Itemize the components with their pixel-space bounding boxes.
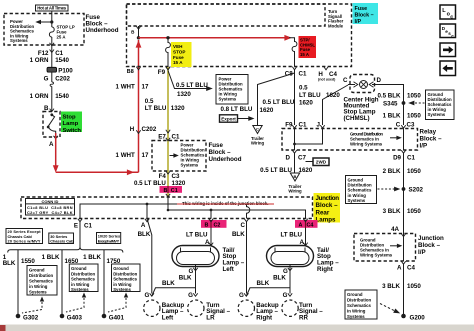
fuse block underhood (middle) dashed box xyxy=(152,141,206,172)
wire (red highlighted) feed to STP CHMSL fuse xyxy=(139,35,292,41)
wire BLK from tail lamp right ground xyxy=(273,271,290,294)
UI button back (left arrow) xyxy=(440,61,456,76)
svg-text:Export: Export xyxy=(221,116,236,121)
node junction on ORN wire xyxy=(50,20,53,23)
svg-text:Block –: Block – xyxy=(355,13,374,19)
svg-text:c: c xyxy=(450,15,453,21)
svg-text:Systems: Systems xyxy=(428,112,446,117)
reference box Power Distribution Schematics (solid) xyxy=(216,75,248,105)
pin A of junction block xyxy=(141,219,149,229)
wire (red highlighted) switch A down xyxy=(53,133,59,173)
svg-text:(CHMSL): (CHMSL) xyxy=(344,115,370,122)
svg-text:Ground: Ground xyxy=(71,266,87,271)
pin G of tail lamp right xyxy=(283,268,292,275)
svg-text:G: G xyxy=(144,292,149,299)
svg-text:1 ORN: 1 ORN xyxy=(30,93,49,100)
pin G of turn signal RR xyxy=(283,292,293,299)
wire junction block internal feed bus xyxy=(167,197,306,219)
arrow to power distribution reference xyxy=(35,20,52,24)
label Stop Lamp Switch (green highlight) xyxy=(61,112,82,134)
svg-text:0.5 LT BLU: 0.5 LT BLU xyxy=(176,82,208,89)
svg-text:BLK: BLK xyxy=(273,274,286,281)
svg-text:G403: G403 xyxy=(67,314,83,321)
label Turn Signal Flasher Module xyxy=(328,9,344,28)
svg-text:1540: 1540 xyxy=(55,93,69,100)
svg-text:1050: 1050 xyxy=(407,112,421,119)
annotation 0.8 LT BLU Export xyxy=(220,106,255,122)
svg-text:BLK: BLK xyxy=(257,280,270,287)
pin H C4 not used xyxy=(318,67,337,82)
svg-text:in Wiring: in Wiring xyxy=(29,284,48,289)
svg-text:17: 17 xyxy=(142,152,149,159)
wire CHMSL D to ground bus xyxy=(377,85,404,126)
svg-text:Distribution: Distribution xyxy=(71,271,95,276)
svg-text:3 BLK: 3 BLK xyxy=(382,283,400,290)
UI button next (right arrow) xyxy=(440,43,456,57)
svg-text:G: G xyxy=(283,292,288,299)
svg-text:C1: C1 xyxy=(172,134,180,141)
label STP CHMSL Fuse 15 A (red highlight) xyxy=(299,36,317,58)
svg-text:20 Series w/MVY: 20 Series w/MVY xyxy=(8,239,41,244)
wire CHMSL C to relay block pin J xyxy=(323,85,349,125)
svg-text:1 BLK: 1 BLK xyxy=(42,254,60,261)
svg-text:Switch: Switch xyxy=(63,128,82,134)
lamp Tail Stop Lamp Left xyxy=(172,246,219,272)
svg-text:D: D xyxy=(377,77,382,84)
wire 1 ORN 1540 xyxy=(30,48,70,67)
svg-text:15 A: 15 A xyxy=(300,52,309,57)
relay block IP dashed box xyxy=(282,129,418,151)
lamp CHMSL symbol xyxy=(348,81,377,89)
reference pointer 0.5 LT BLU 1320 to power distribution xyxy=(168,71,213,98)
svg-text:LT BLU: LT BLU xyxy=(186,231,208,238)
label STOP LP Fuse 25 A xyxy=(57,25,75,40)
svg-text:Right: Right xyxy=(317,266,333,273)
svg-text:4A: 4A xyxy=(391,226,399,233)
junction block rear lamps dashed box xyxy=(21,197,313,219)
svg-text:Wiring Systems: Wiring Systems xyxy=(350,141,383,146)
stop lamp switch SW1 dashed box xyxy=(43,112,60,138)
svg-text:Systems: Systems xyxy=(347,314,365,319)
label 0.5 LT BLU 1320 on olive wire xyxy=(145,98,185,112)
pin E C1 of junction block xyxy=(74,219,93,230)
svg-text:I/P: I/P xyxy=(355,19,362,25)
svg-text:A: A xyxy=(141,222,146,229)
svg-text:Junction: Junction xyxy=(418,235,444,242)
reference box Ground Distribution (G401) xyxy=(108,264,140,312)
svg-text:Systems: Systems xyxy=(348,198,366,203)
svg-text:Relay: Relay xyxy=(420,129,437,136)
svg-text:Underhood: Underhood xyxy=(209,156,242,163)
svg-text:C3: C3 xyxy=(172,173,180,180)
splice S202 xyxy=(378,187,424,194)
ground G403 xyxy=(60,314,83,322)
svg-text:F4: F4 xyxy=(159,173,167,180)
label Tail Stop Lamp Right xyxy=(317,247,339,273)
wire BLK from tail lamp left ground xyxy=(179,271,196,294)
svg-text:Wiring: Wiring xyxy=(288,189,302,194)
svg-text:Schematics: Schematics xyxy=(71,277,95,282)
label Relay Block - IP xyxy=(420,129,443,150)
svg-text:BLK: BLK xyxy=(138,231,151,238)
label 0.5 LT BLU 1620 vertical xyxy=(299,84,321,106)
svg-text:Module: Module xyxy=(328,23,344,28)
pin C8 C1 of fuse block IP xyxy=(285,67,307,78)
svg-text:A: A xyxy=(300,239,305,246)
svg-text:Block –: Block – xyxy=(418,242,441,249)
svg-text:25 A: 25 A xyxy=(57,34,66,39)
wire relay internal F9 to D xyxy=(294,129,296,151)
reference box Ground Distribution (G200) xyxy=(345,290,400,319)
label VEH STOP Fuse 15 A (yellow highlight) xyxy=(171,42,192,67)
svg-text:0.5 BLK: 0.5 BLK xyxy=(377,92,401,99)
svg-text:c: c xyxy=(451,34,454,39)
brace splitting ground wire xyxy=(8,247,123,253)
reference Power Distribution Schematics (underhood fuse block) xyxy=(10,19,34,43)
svg-text:1 BLK: 1 BLK xyxy=(83,254,101,261)
svg-text:Systems: Systems xyxy=(29,290,47,295)
svg-text:15 A: 15 A xyxy=(173,60,183,65)
svg-text:G401: G401 xyxy=(109,314,125,321)
svg-text:1620: 1620 xyxy=(260,107,274,114)
node Hot at All Times xyxy=(36,5,69,11)
svg-text:C3: C3 xyxy=(407,121,415,128)
svg-text:Junction: Junction xyxy=(316,195,340,202)
svg-text:2 BLK: 2 BLK xyxy=(383,168,401,175)
wire relay internal J joins F9 xyxy=(293,129,322,146)
svg-text:Rear: Rear xyxy=(316,209,330,216)
UI bottom status bar xyxy=(0,325,474,331)
junction block IP dashed box xyxy=(354,234,416,262)
svg-text:0.5: 0.5 xyxy=(299,84,308,91)
svg-text:2WD: 2WD xyxy=(316,160,327,165)
pin G of backup lamp right xyxy=(239,292,249,299)
pin G of tail lamp left xyxy=(188,268,197,275)
svg-text:This wiring is inside of the j: This wiring is inside of the junction bl… xyxy=(182,201,269,206)
lamp Turn Signal RR (dashed circle) xyxy=(282,300,323,322)
wire through junction block IP xyxy=(403,234,405,262)
wire relay internal C3 to D9 xyxy=(403,129,405,151)
pin E7 C1 of fuse block underhood xyxy=(158,134,180,141)
svg-text:E: E xyxy=(74,222,78,229)
svg-text:Systems: Systems xyxy=(71,287,89,292)
svg-text:Ground: Ground xyxy=(347,292,363,297)
svg-text:1320: 1320 xyxy=(177,91,191,98)
variant box 20 Series Except Chassis Cab xyxy=(6,229,43,244)
svg-text:B: B xyxy=(205,223,209,229)
svg-text:1050: 1050 xyxy=(407,208,421,215)
pin F9 C1 of relay block xyxy=(285,121,307,128)
wire A C4 to G200 xyxy=(403,264,405,315)
svg-text:Systems: Systems xyxy=(10,38,28,43)
fuse VEH STOP 15A symbol xyxy=(166,38,171,67)
svg-text:Distribution: Distribution xyxy=(113,271,137,276)
wire 1 BLK 1650 to G403 xyxy=(42,250,79,314)
svg-text:in Wiring: in Wiring xyxy=(71,282,90,287)
svg-text:C1: C1 xyxy=(55,50,63,57)
svg-text:G: G xyxy=(188,292,193,299)
node junction at VEH STOP fuse xyxy=(166,36,169,39)
svg-text:1050: 1050 xyxy=(407,168,421,175)
svg-text:1050: 1050 xyxy=(407,283,421,290)
svg-text:F12: F12 xyxy=(38,50,49,57)
svg-text:H: H xyxy=(130,126,135,133)
svg-text:A: A xyxy=(49,141,54,148)
reference box Ground Distribution (G403) xyxy=(66,264,98,312)
svg-text:Right: Right xyxy=(256,315,272,322)
svg-text:C1: C1 xyxy=(299,70,307,77)
svg-text:3 BLK: 3 BLK xyxy=(383,208,401,215)
label 1 WHT 17 upper xyxy=(116,83,149,90)
splice S345 xyxy=(383,101,424,108)
svg-text:A: A xyxy=(397,264,402,271)
reference box Ground Distribution (G302) xyxy=(22,266,57,314)
reference box Ground Distribution (S202) xyxy=(346,176,377,204)
svg-text:A: A xyxy=(299,223,303,229)
svg-text:1320: 1320 xyxy=(171,105,185,112)
svg-text:D: D xyxy=(286,155,291,162)
fuse STP CHMSL 15A symbol xyxy=(289,38,297,67)
svg-text:C7: C7 xyxy=(298,155,306,162)
svg-text:in Wiring: in Wiring xyxy=(113,282,132,287)
svg-text:1 WHT: 1 WHT xyxy=(116,83,135,90)
wire trailer branch from C8 C1 xyxy=(258,73,295,126)
wire LT BLU to left tail lamp xyxy=(186,228,213,246)
svg-text:C4: C4 xyxy=(407,264,415,271)
wire flasher B to stop feed junction xyxy=(138,26,140,38)
svg-text:Fuse: Fuse xyxy=(209,142,224,149)
wire E C1 down to brace xyxy=(79,222,81,248)
wire A BLK from junction block to backup lamp left xyxy=(138,219,152,294)
label 0.5 LT BLU 1320 xyxy=(134,180,186,187)
pin B of stop lamp switch xyxy=(44,105,49,112)
wire 1 ORN 1540 lower xyxy=(30,86,70,111)
svg-text:Chassis Cab: Chassis Cab xyxy=(50,239,74,244)
wire (olive highlighted) circuit 1320 from F9 down to junction block xyxy=(166,67,170,197)
trailer wiring triangle C xyxy=(251,126,265,146)
svg-text:Block –: Block – xyxy=(209,149,232,156)
wire D9 to junction block IP xyxy=(403,153,405,234)
svg-text:F9: F9 xyxy=(158,69,166,76)
svg-text:1620: 1620 xyxy=(326,92,340,99)
svg-text:G: G xyxy=(44,76,49,83)
label 0.5 BLK 1050 xyxy=(377,92,421,99)
svg-text:LT BLU: LT BLU xyxy=(145,105,167,112)
fuse block underhood (left) dashed box xyxy=(4,14,84,46)
svg-text:Systems: Systems xyxy=(113,287,131,292)
label 1620 xyxy=(326,92,340,99)
ground G401 xyxy=(102,314,125,322)
lamp Backup Lamp Left (dashed circle) xyxy=(144,300,185,322)
wire fuse to F12 pin xyxy=(51,37,53,48)
svg-text:1320: 1320 xyxy=(172,180,186,187)
svg-text:C: C xyxy=(241,222,246,229)
svg-text:1620: 1620 xyxy=(299,99,313,106)
svg-text:Block –: Block – xyxy=(316,202,339,209)
pin labels F12 C1 xyxy=(38,50,64,57)
label 3 BLK 1050 lower xyxy=(382,283,421,290)
pin A of stop lamp switch xyxy=(49,141,54,148)
wire BLK branch to backup lamp right xyxy=(246,280,290,296)
pin F9 of fuse block IP xyxy=(158,67,170,76)
svg-text:Stop: Stop xyxy=(63,115,76,121)
label Junction Block - Rear Lamps (yellow highlight) xyxy=(314,193,341,224)
svg-text:C: C xyxy=(256,126,259,131)
pin B of flasher module xyxy=(131,26,141,34)
svg-text:Block –: Block – xyxy=(420,136,443,143)
UI button Desc xyxy=(440,24,456,39)
svg-text:B: B xyxy=(164,188,168,194)
pin G of backup lamp left xyxy=(144,292,154,299)
svg-text:LT BLU: LT BLU xyxy=(280,231,302,238)
label Junction Block - IP xyxy=(418,235,444,256)
pin B C1 of junction block (magenta highlight) xyxy=(160,186,183,197)
pin J of relay block xyxy=(317,121,325,128)
svg-text:S345: S345 xyxy=(383,101,398,108)
label 1 WHT 17 lower xyxy=(116,152,149,159)
lamp Tail Stop Lamp Right xyxy=(267,246,314,272)
pin B8 of fuse block IP xyxy=(127,67,141,75)
connector C202 pin G xyxy=(44,72,71,86)
svg-text:Lamps: Lamps xyxy=(316,217,337,224)
svg-text:Schematics: Schematics xyxy=(29,279,53,284)
svg-text:Except w/MVY: Except w/MVY xyxy=(98,238,120,243)
svg-text:P100: P100 xyxy=(58,68,73,75)
pin F4 C3 of fuse block underhood xyxy=(159,171,180,180)
wire 1 BLK 1550 to G302 xyxy=(3,250,36,314)
wire 1 BLK 1750 to G401 xyxy=(83,250,121,314)
wire (red highlighted) vertical up circuit 17 xyxy=(136,40,142,172)
label 3 BLK 1050 xyxy=(383,208,422,215)
svg-text:VEH: VEH xyxy=(173,44,183,49)
svg-text:Systems: Systems xyxy=(181,162,199,167)
svg-text:C202: C202 xyxy=(142,126,157,133)
table CONN ID xyxy=(26,199,75,216)
label 0.5 LT BLU 1620 xyxy=(260,167,313,174)
ground G200 xyxy=(401,314,425,322)
reference Power Distribution Schematics inside underhood box xyxy=(170,142,205,167)
svg-text:Systems: Systems xyxy=(219,96,237,101)
svg-text:1 ORN: 1 ORN xyxy=(30,57,49,64)
reference Ground Distribution inside junction block IP xyxy=(360,237,402,257)
svg-text:Schematics: Schematics xyxy=(113,277,137,282)
svg-text:Lamp: Lamp xyxy=(63,121,79,127)
svg-text:C1: C1 xyxy=(84,222,92,229)
svg-text:Left: Left xyxy=(223,266,234,273)
svg-text:Fuse: Fuse xyxy=(173,55,184,60)
wire (red highlighted) horizontal to right xyxy=(56,169,139,175)
svg-text:F9: F9 xyxy=(285,121,293,128)
label 0.5 LT BLU 1620 trailer branch xyxy=(260,99,295,114)
svg-text:E7: E7 xyxy=(158,134,166,141)
label Fuse Block - Underhood (middle) xyxy=(209,142,242,163)
svg-text:C2: C2 xyxy=(214,223,221,229)
svg-text:0.5 LT BLU: 0.5 LT BLU xyxy=(134,180,166,187)
pin D of CHMSL xyxy=(377,77,382,84)
svg-text:C202: C202 xyxy=(55,76,70,83)
wire C BLK from junction block to backup lamp right xyxy=(232,222,247,294)
svg-text:C1: C1 xyxy=(407,155,415,162)
svg-text:B8: B8 xyxy=(127,69,134,75)
label Tail Stop Lamp Left xyxy=(223,247,245,273)
UI button Loc xyxy=(440,5,456,21)
svg-text:Hot at All Times: Hot at All Times xyxy=(37,6,67,11)
pin C of CHMSL xyxy=(343,77,348,84)
svg-text:1 WHT: 1 WHT xyxy=(116,152,135,159)
pin 4A of junction block IP xyxy=(391,226,406,237)
variant box 30 Series Chassis Cab xyxy=(49,233,74,244)
svg-text:BLK: BLK xyxy=(3,260,16,267)
switch symbol xyxy=(47,109,58,139)
fuse block IP dashed box xyxy=(127,4,352,67)
svg-text:BLK: BLK xyxy=(162,280,175,287)
svg-text:C4: C4 xyxy=(307,223,314,229)
svg-text:A: A xyxy=(205,239,210,246)
fuse STOP LP 25A symbol xyxy=(49,27,54,37)
svg-text:LR: LR xyxy=(206,315,215,322)
grommet P100 xyxy=(47,67,73,74)
svg-text:Wiring Systems: Wiring Systems xyxy=(360,252,393,257)
svg-text:J: J xyxy=(317,121,321,128)
wire junction block internal ground bus xyxy=(80,203,250,219)
lamp Turn Signal LR (dashed circle) xyxy=(188,300,231,322)
svg-text:S202: S202 xyxy=(409,187,424,194)
svg-text:CONN ID: CONN ID xyxy=(42,199,59,204)
label 2 BLK 1050 xyxy=(383,168,422,175)
svg-text:LT BLU: LT BLU xyxy=(299,92,321,99)
svg-text:I/P: I/P xyxy=(418,249,426,256)
annotation small box 2WD xyxy=(306,158,330,166)
svg-text:17: 17 xyxy=(142,83,149,90)
svg-text:1620: 1620 xyxy=(299,167,313,174)
pin A C4 of junction block (magenta highlight) xyxy=(295,219,318,229)
label 1 BLK 1050 xyxy=(383,112,422,119)
svg-text:0.5 LT BLU: 0.5 LT BLU xyxy=(263,99,295,106)
pin D C7 of relay block xyxy=(286,150,307,161)
wire from C8 C1 down to relay block F9 xyxy=(294,70,296,125)
pin G of turn signal LR xyxy=(188,292,198,299)
svg-text:Wiring: Wiring xyxy=(251,141,265,146)
svg-text:C1: C1 xyxy=(299,121,307,128)
svg-text:Left: Left xyxy=(162,315,173,322)
wire LT BLU to right tail lamp xyxy=(280,228,307,246)
svg-text:G200: G200 xyxy=(410,315,426,322)
svg-text:Fuse: Fuse xyxy=(355,6,368,12)
pin D9 C1 of relay block xyxy=(393,150,415,161)
label Fuse Block - Underhood xyxy=(86,14,119,34)
pin C of junction block xyxy=(241,219,249,229)
svg-text:1540: 1540 xyxy=(55,57,69,64)
svg-text:Distribution: Distribution xyxy=(29,273,53,278)
note This wiring is inside of the junction block (red strikethrough) xyxy=(177,201,274,206)
svg-text:I/P: I/P xyxy=(420,143,428,150)
pin C C3 of relay block xyxy=(396,121,415,128)
label Center High Mounted Stop Lamp (CHMSL) xyxy=(344,97,379,122)
svg-text:(not used): (not used) xyxy=(318,77,336,81)
svg-text:RR: RR xyxy=(299,315,308,322)
reference Ground Distribution inside relay block xyxy=(350,131,402,146)
reference box Ground Distribution (S345) xyxy=(426,90,455,120)
svg-text:1550: 1550 xyxy=(21,258,35,265)
CHMSL lamp dashed box xyxy=(350,75,375,93)
svg-text:STOP: STOP xyxy=(173,49,185,54)
svg-text:B: B xyxy=(294,174,297,179)
svg-text:D9: D9 xyxy=(393,155,401,162)
trailer wiring triangle B xyxy=(288,173,302,194)
lamp Backup Lamp Right (dashed circle) xyxy=(238,300,279,322)
wire from Hot at All Times to fuse block underhood xyxy=(51,11,53,27)
svg-text:Ground: Ground xyxy=(113,266,129,271)
